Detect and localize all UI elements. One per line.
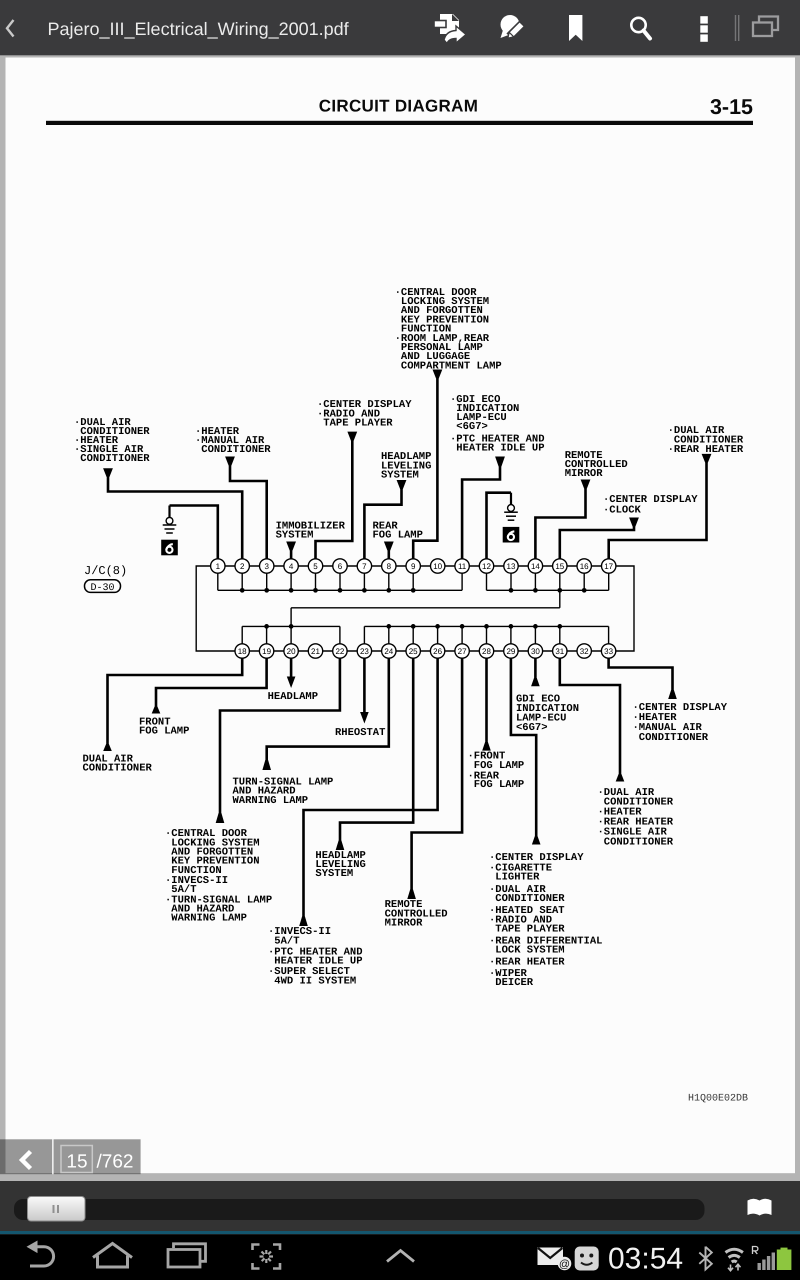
wire pin24 to label (262, 658, 388, 770)
toolbar divider (735, 15, 740, 41)
svg-text:1: 1 (216, 562, 221, 571)
svg-text:WARNING LAMP: WARNING LAMP (165, 913, 247, 925)
label pin31 systems (598, 787, 674, 849)
toolbar icon overflow (700, 16, 708, 42)
svg-text:27: 27 (458, 647, 467, 656)
label pin4 immobilizer (276, 520, 346, 541)
bottom-left bus wire (242, 625, 340, 627)
svg-text:03:54: 03:54 (608, 1243, 683, 1276)
label pin19 front fog lamp (139, 717, 189, 738)
svg-text:J/C(8): J/C(8) (84, 564, 127, 578)
junction dots top-right bus (509, 588, 587, 593)
svg-text:19: 19 (262, 647, 271, 656)
svg-text:SYSTEM: SYSTEM (381, 469, 419, 481)
label pin23 rheostat (335, 727, 385, 739)
wire label to pin4 (286, 542, 296, 559)
svg-text:14: 14 (531, 562, 540, 571)
svg-text:30: 30 (531, 647, 540, 656)
label pin28 fog lamps (468, 751, 525, 792)
wire label to pin14 (535, 480, 590, 559)
svg-text:17: 17 (604, 562, 613, 571)
toolbar icon search (631, 18, 650, 39)
svg-text:HEATER IDLE UP: HEATER IDLE UP (450, 442, 545, 454)
svg-text:HEADLAMP: HEADLAMP (268, 691, 318, 703)
svg-text:D-30: D-30 (90, 583, 114, 594)
status bluetooth icon (699, 1247, 712, 1270)
cross link wire pin15 to middle bus (559, 590, 561, 608)
ground symbol 2 (code 6) (503, 493, 520, 543)
bottom row line (242, 650, 608, 652)
app toolbar (0, 0, 800, 56)
junction pins 18-33 (235, 644, 249, 658)
nav capture icon (253, 1245, 281, 1269)
wire label to pin7 (364, 480, 406, 559)
wire label to pin5 (316, 432, 358, 559)
svg-text:9: 9 (411, 562, 416, 571)
wire label to pin8 (384, 542, 394, 559)
junction dots bottom-left bus (264, 624, 293, 629)
svg-text:<6G7>: <6G7> (516, 722, 548, 734)
svg-text:5: 5 (313, 562, 318, 571)
label pin3 systems (195, 426, 271, 456)
status wifi icon (726, 1249, 743, 1270)
top-left bus wire (218, 589, 462, 591)
wire label to pin3 (225, 457, 267, 559)
wire pin19 to label (152, 658, 267, 713)
svg-text:<6G7>: <6G7> (450, 421, 488, 433)
svg-text:22: 22 (335, 647, 344, 656)
label pin22 systems (165, 828, 272, 925)
svg-text:CONDITIONER: CONDITIONER (489, 893, 565, 905)
svg-text:FOG LAMP: FOG LAMP (139, 726, 189, 738)
connector frame left side (196, 566, 235, 651)
toolbar icon bookmark (569, 15, 582, 41)
svg-text:24: 24 (384, 647, 393, 656)
svg-text:H1Q00E02DB: H1Q00E02DB (688, 1094, 748, 1105)
svg-text:21: 21 (311, 647, 320, 656)
svg-text:12: 12 (482, 562, 491, 571)
bus stubs pins 18-22 (242, 626, 340, 644)
svg-text:·REAR HEATER: ·REAR HEATER (489, 957, 565, 969)
svg-text:CIRCUIT DIAGRAM: CIRCUIT DIAGRAM (319, 97, 478, 116)
junction dots top-left bus (240, 588, 416, 593)
svg-text:16: 16 (580, 562, 589, 571)
bus stubs pins 1-11 (218, 573, 462, 591)
svg-text:COMPARTMENT LAMP: COMPARTMENT LAMP (395, 360, 502, 372)
label pin11 systems (450, 394, 545, 455)
wire pin31 to label (560, 658, 625, 781)
wire pin26 to label (299, 658, 437, 926)
svg-text:26: 26 (433, 647, 442, 656)
wire label to pin15 (560, 518, 639, 559)
nav home icon (93, 1244, 132, 1268)
svg-text:FOG LAMP: FOG LAMP (373, 529, 423, 541)
nav bar (0, 1234, 800, 1280)
svg-text:32: 32 (580, 647, 589, 656)
wire ground1 to pin1 (170, 506, 218, 559)
bottom-right bus wire (364, 625, 608, 627)
svg-text:33: 33 (604, 647, 613, 656)
svg-text:FOG LAMP: FOG LAMP (468, 779, 525, 791)
svg-text:MIRROR: MIRROR (385, 918, 424, 930)
wire pin18 to label (103, 658, 242, 751)
svg-text:/762: /762 (97, 1152, 134, 1173)
svg-text:23: 23 (360, 647, 369, 656)
bus stubs pins 12-17 (487, 573, 609, 591)
svg-text:31: 31 (555, 647, 564, 656)
svg-text:18: 18 (238, 647, 247, 656)
svg-text:@: @ (559, 1258, 570, 1270)
svg-text:WARNING LAMP: WARNING LAMP (233, 795, 309, 807)
svg-text:CONDITIONER: CONDITIONER (83, 762, 153, 774)
svg-text:15: 15 (66, 1152, 87, 1173)
connector frame right side (616, 566, 634, 651)
svg-text:SYSTEM: SYSTEM (276, 529, 314, 541)
label D-30 box (85, 580, 121, 594)
label pin26 systems (268, 926, 363, 987)
wire label to pin17 (609, 454, 712, 559)
toolbar icon multi-window (753, 17, 778, 37)
label pin9 systems (395, 287, 502, 373)
svg-text:MIRROR: MIRROR (565, 468, 604, 480)
label pin8 rear fog lamp (373, 520, 423, 541)
toolbar back chevron (7, 20, 14, 37)
label pin14 remote mirror (565, 450, 628, 480)
label pin24 turn-signal (233, 776, 334, 807)
wire pin33 to label (609, 658, 677, 699)
label pin27 remote mirror (385, 899, 448, 930)
toolbar icon export page (434, 14, 466, 44)
seekbar thumb (28, 1197, 86, 1222)
wire pin27 to label (407, 658, 462, 899)
middle bus wire (291, 607, 560, 609)
wire pin23 to label (360, 658, 369, 723)
label pin17 systems (668, 425, 744, 456)
wire pin20 to label (287, 658, 296, 688)
svg-text:LIGHTER: LIGHTER (489, 872, 540, 884)
label pin33 systems (633, 702, 728, 744)
label pin5 systems (317, 399, 412, 429)
label pin7 headlamp leveling (381, 451, 431, 481)
wire ground2 to pin12 (487, 493, 512, 559)
status email icon (538, 1248, 572, 1271)
wire label to pin11 (462, 457, 505, 559)
page nav overlay (0, 1139, 141, 1174)
svg-text:15: 15 (555, 562, 564, 571)
wire pin30 to label (531, 658, 540, 686)
header rule (46, 121, 753, 125)
svg-text:DEICER: DEICER (489, 977, 534, 989)
cross link wire middle bus to pin20 (290, 608, 292, 627)
top row line (218, 565, 609, 567)
svg-text:11: 11 (458, 562, 467, 571)
svg-text:2: 2 (240, 562, 245, 571)
svg-text:CONDITIONER: CONDITIONER (598, 836, 674, 848)
book icon (748, 1199, 772, 1216)
svg-text:3-15: 3-15 (710, 95, 753, 119)
junction dots bottom-right bus (386, 624, 562, 629)
wire pin28 to label (482, 658, 491, 750)
svg-text:CONDITIONER: CONDITIONER (633, 732, 709, 744)
nav recents icon (168, 1244, 206, 1267)
seekbar track (14, 1199, 705, 1220)
wire label to pin2 (103, 468, 242, 559)
svg-text:20: 20 (287, 647, 296, 656)
svg-text:4WD II SYSTEM: 4WD II SYSTEM (268, 975, 356, 987)
svg-text:LOCK SYSTEM: LOCK SYSTEM (489, 945, 565, 957)
svg-text:29: 29 (506, 647, 515, 656)
status smiley icon (575, 1247, 599, 1271)
ground symbol 1 (code 6) (161, 506, 178, 556)
wire pin22 to label (216, 658, 340, 823)
svg-text:RHEOSTAT: RHEOSTAT (335, 727, 385, 739)
nav expand chevron (387, 1251, 414, 1262)
label pin29 systems (489, 852, 602, 989)
toolbar icon annotate (501, 15, 525, 41)
svg-text:6: 6 (338, 562, 343, 571)
junction pins 1-17 (211, 559, 225, 573)
svg-text:TAPE PLAYER: TAPE PLAYER (489, 924, 565, 936)
status signal icon (753, 1247, 776, 1271)
label pin15 systems (603, 494, 698, 517)
label pin20 headlamp (268, 691, 318, 703)
label pin25 headlamp leveling (315, 850, 365, 880)
svg-text:SYSTEM: SYSTEM (315, 868, 353, 880)
svg-text:7: 7 (362, 562, 367, 571)
label pin30 gdi eco (516, 693, 579, 734)
label pin2 systems (74, 417, 150, 465)
status battery icon (777, 1248, 792, 1270)
svg-text:3: 3 (264, 562, 269, 571)
bus stubs pins 23-33 (364, 626, 608, 644)
svg-text:·REAR HEATER: ·REAR HEATER (668, 444, 744, 456)
svg-text:Pajero_III_Electrical_Wiring_2: Pajero_III_Electrical_Wiring_2001.pdf (48, 19, 350, 39)
svg-text:TAPE PLAYER: TAPE PLAYER (317, 418, 393, 430)
svg-text:CONDITIONER: CONDITIONER (195, 444, 271, 456)
svg-text:4: 4 (289, 562, 294, 571)
label pin18 dual air conditioner (83, 754, 153, 775)
nav back icon (27, 1241, 54, 1267)
seekbar panel (0, 1181, 800, 1231)
top-right bus wire (487, 589, 609, 591)
teal accent line (0, 1231, 800, 1234)
svg-text:28: 28 (482, 647, 491, 656)
svg-text:25: 25 (409, 647, 418, 656)
svg-text:10: 10 (433, 562, 442, 571)
svg-text:8: 8 (387, 562, 392, 571)
wire pin29 to label (511, 658, 541, 844)
svg-text:CONDITIONER: CONDITIONER (74, 453, 150, 465)
svg-text:·CLOCK: ·CLOCK (603, 504, 642, 516)
wire pin25 to label (336, 658, 414, 850)
svg-text:13: 13 (507, 562, 516, 571)
wire label to pin9 (413, 370, 442, 559)
